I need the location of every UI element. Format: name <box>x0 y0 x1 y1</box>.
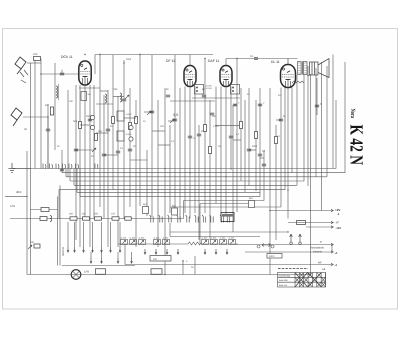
IF coil turn <box>196 90 198 92</box>
resistor R13 zigzag <box>292 81 304 83</box>
terminal arrow <box>331 243 333 246</box>
wire bend <box>69 169 71 182</box>
wire <box>34 61 36 169</box>
junction <box>151 111 152 112</box>
wire <box>170 231 288 233</box>
tube V1 DCH11 <box>79 61 91 85</box>
trimmer C40 <box>121 240 128 245</box>
wire <box>259 88 261 197</box>
tube V4 DL11 <box>281 65 296 88</box>
wire bus 5 <box>74 184 297 186</box>
capacitor C17 <box>279 119 283 121</box>
wire <box>307 75 310 77</box>
wire link <box>260 157 264 159</box>
svg-text:Taste MW: Taste MW <box>279 279 288 282</box>
capacitor C22 <box>150 111 154 113</box>
resistor R2 <box>79 122 82 129</box>
switch wafer contact W7 <box>202 215 206 223</box>
junction <box>204 58 205 59</box>
wire -A <box>245 251 332 253</box>
trimmer C42 <box>139 240 146 245</box>
junction <box>174 119 175 120</box>
svg-text:Schalterlage: Schalterlage <box>279 274 291 277</box>
svg-text:Nora: Nora <box>349 109 356 119</box>
svg-text:11,000: 11,000 <box>154 236 160 239</box>
resistor R8 <box>209 147 212 154</box>
svg-text:8μF: 8μF <box>249 197 254 200</box>
wire resistor bus <box>10 218 184 220</box>
switch contact T2 <box>155 249 157 254</box>
switch contact on bus <box>69 164 72 169</box>
wire <box>204 59 206 214</box>
wire <box>184 87 186 214</box>
wire <box>101 222 103 247</box>
junction <box>47 116 48 117</box>
wire <box>117 96 119 247</box>
IF coil turn <box>232 87 234 89</box>
wire trimmer row 2 <box>201 243 238 245</box>
switch contact S6 <box>110 247 112 252</box>
wire <box>83 222 85 247</box>
wire <box>67 90 69 177</box>
switch contact on bus <box>50 164 53 169</box>
wire <box>275 125 277 240</box>
junction <box>61 169 62 170</box>
svg-text:40/2: 40/2 <box>16 190 22 194</box>
switch contact S9 <box>101 258 103 263</box>
wire <box>244 100 246 192</box>
wire <box>331 245 333 253</box>
switch wafer contact W6 <box>195 215 199 223</box>
wire <box>157 100 159 247</box>
svg-text:10,000: 10,000 <box>126 133 132 136</box>
wire <box>92 222 94 247</box>
junction <box>182 260 183 261</box>
wire <box>263 150 265 201</box>
wire <box>296 75 298 185</box>
terminal arrow <box>331 226 333 229</box>
svg-text:DF 11: DF 11 <box>166 59 175 63</box>
capacitor C26 <box>34 244 40 248</box>
wire link <box>79 87 100 89</box>
wire bend <box>61 169 63 173</box>
trimmer arrow C48 <box>230 240 234 244</box>
wire <box>169 125 171 213</box>
wire bus 6 <box>59 189 285 191</box>
wire bus 2 <box>62 172 345 174</box>
trimmer arrow C44 <box>164 240 168 244</box>
switch contact on bus <box>95 164 98 169</box>
wire <box>103 95 105 219</box>
switch contact S10 <box>117 258 119 263</box>
capacitor C4 <box>88 119 92 121</box>
capacitor C12 <box>210 113 214 115</box>
wire bus 4 <box>70 180 304 182</box>
oscillator transformer lower <box>117 131 124 141</box>
capacitor C9 <box>74 149 78 151</box>
potentiometer P1 400 <box>150 256 171 262</box>
trimmer arrow <box>92 148 96 152</box>
wire <box>47 117 49 169</box>
variable capacitor <box>90 125 94 129</box>
trimmer arrow C45 <box>203 240 207 244</box>
wire <box>129 88 131 207</box>
wire <box>61 150 63 169</box>
wire <box>79 85 81 247</box>
power filter block <box>221 213 234 222</box>
switch contact S4 <box>92 247 94 252</box>
wire <box>316 78 318 115</box>
junction <box>316 105 317 106</box>
wire <box>194 87 196 214</box>
svg-text:1M: 1M <box>218 145 221 148</box>
svg-text:L/W: L/W <box>10 204 15 208</box>
wire bus 1 <box>12 168 336 170</box>
wire grid V1 <box>41 73 79 75</box>
tube socket table <box>278 273 326 288</box>
svg-text:10,000: 10,000 <box>126 113 132 116</box>
phono jack <box>257 244 274 248</box>
switch wafer contact W2 <box>159 215 163 223</box>
wire <box>119 222 121 247</box>
wire <box>151 55 153 217</box>
trimmer arrow C47 <box>221 240 225 244</box>
tube V3 DAF11 <box>220 66 232 87</box>
wire <box>215 87 217 204</box>
resistor R4 <box>112 117 115 124</box>
junction <box>269 244 270 245</box>
wire bus 9 <box>184 200 265 202</box>
capacitor C15 <box>258 154 262 156</box>
capacitor C13b <box>188 136 192 138</box>
junction <box>287 231 288 232</box>
wire bus 11 <box>170 206 281 208</box>
junction <box>287 189 288 190</box>
wire link <box>96 132 108 134</box>
wire +2V <box>270 210 333 212</box>
capacitor grid V2 <box>166 95 170 97</box>
wire switch lead <box>31 209 58 211</box>
choke L8 <box>50 216 52 222</box>
junction <box>84 54 85 55</box>
wire HF line <box>125 264 332 266</box>
dial lamp <box>71 270 81 280</box>
wire <box>255 100 257 191</box>
junction <box>269 210 270 211</box>
svg-text:+: + <box>320 240 322 244</box>
svg-text:300: 300 <box>88 93 91 96</box>
wire link <box>124 117 136 119</box>
wire <box>110 222 112 247</box>
svg-text:220: 220 <box>33 53 38 56</box>
IF transformer T1 <box>195 85 204 95</box>
wire AVC link <box>215 124 240 126</box>
svg-text:2000: 2000 <box>126 58 132 61</box>
wire IF link <box>192 97 240 99</box>
wire <box>248 88 250 186</box>
switch contact S7 <box>119 247 121 252</box>
svg-text:DAF 11: DAF 11 <box>208 59 219 63</box>
wire <box>75 85 77 240</box>
wire link <box>104 154 118 156</box>
wire <box>303 66 305 181</box>
wire <box>67 222 69 247</box>
svg-text:DCh 11: DCh 11 <box>61 55 73 59</box>
wire link <box>113 96 124 98</box>
antenna switch contacts <box>20 70 28 83</box>
switch wafer contact W9 <box>220 215 224 223</box>
ground symbol left <box>9 163 16 173</box>
resistor R7 <box>204 125 207 132</box>
junction <box>75 149 76 150</box>
wire link <box>158 144 170 146</box>
junction <box>164 168 165 169</box>
trimmer arrow C42 <box>140 240 144 244</box>
wire <box>93 85 95 219</box>
tube V2 DF11 <box>184 66 196 87</box>
capacitor C16 <box>262 164 266 166</box>
capacitor C25 block <box>40 217 47 221</box>
switch arrow <box>28 245 32 249</box>
plug link P2 <box>299 234 302 245</box>
resistor R15 <box>83 217 90 220</box>
switch contact S2 <box>74 247 76 252</box>
wire <box>61 70 63 73</box>
junction <box>123 62 124 63</box>
wire link <box>96 103 113 105</box>
wire link <box>130 159 147 161</box>
junction <box>26 196 27 197</box>
capacitor C10 <box>102 154 106 156</box>
wire <box>90 252 92 258</box>
resistor R3 <box>95 134 98 141</box>
switch block S30 <box>96 269 106 275</box>
wire link <box>80 124 90 126</box>
switch contact S3 <box>83 247 85 252</box>
wire <box>344 62 346 173</box>
wire <box>291 88 293 173</box>
wire link <box>144 111 152 113</box>
wire left rail <box>30 63 32 275</box>
wire heater + <box>236 244 332 246</box>
svg-text:10,000: 10,000 <box>206 87 213 90</box>
resistor R20 zigzag <box>188 242 201 245</box>
IF coil turn <box>232 90 234 92</box>
svg-text:Heizbatterie: Heizbatterie <box>310 247 324 250</box>
wire <box>146 150 148 216</box>
wire <box>74 222 76 247</box>
capacitor C13 <box>229 136 233 138</box>
junction <box>259 104 260 105</box>
junction <box>164 274 165 275</box>
svg-text:4000: 4000 <box>269 255 275 258</box>
svg-text:535: 535 <box>113 88 118 91</box>
resistor R6 <box>135 117 138 124</box>
wire ground bus main <box>27 274 311 276</box>
electrolytic capacitor C32 8uF <box>249 201 255 208</box>
trimmer arrow C46 <box>212 240 216 244</box>
junction <box>236 58 237 59</box>
wire <box>310 74 312 275</box>
trimmer arrow C43 <box>155 240 159 244</box>
switch S20 box <box>41 208 49 212</box>
svg-text:Taste LW: Taste LW <box>279 284 288 287</box>
wire bend <box>73 169 75 186</box>
svg-text:4,0: 4,0 <box>173 113 178 117</box>
wire <box>280 88 282 208</box>
capacitor C8 <box>128 149 132 151</box>
resistor R14 <box>70 217 77 220</box>
switch contact S11 <box>131 258 133 263</box>
trimmer C46 <box>211 240 218 245</box>
wire -13 <box>306 226 333 228</box>
switch contact T1 <box>144 249 146 254</box>
trimmer C43 <box>154 240 161 245</box>
trimmer C48 <box>229 240 236 245</box>
wire bend <box>65 169 67 177</box>
terminal arrow <box>331 251 333 254</box>
wire bus 8 <box>80 196 260 198</box>
terminal arrow <box>331 221 333 224</box>
wire <box>179 88 181 220</box>
wire <box>189 87 191 219</box>
svg-text:10,000: 10,000 <box>206 85 213 88</box>
switch wafer contact W1 <box>150 215 154 223</box>
svg-text:11,000: 11,000 <box>130 236 136 239</box>
svg-text:-A: -A <box>335 251 338 255</box>
switch contact S8 <box>90 258 92 263</box>
wire <box>287 88 289 219</box>
wire left rail 2 <box>26 151 28 275</box>
junction <box>99 54 100 55</box>
capacitor C23 <box>173 119 177 121</box>
switch arrow <box>170 119 174 123</box>
wire <box>94 55 96 75</box>
wire top supply <box>95 54 213 56</box>
trimmer C41 <box>130 240 137 245</box>
wire bus 10 <box>200 203 250 205</box>
svg-text:4μF: 4μF <box>172 205 177 208</box>
resistor R18 <box>125 217 132 220</box>
antenna series capacitor C1 <box>34 57 41 61</box>
wire <box>89 85 91 247</box>
wire <box>169 223 171 237</box>
resistor R11 <box>275 137 278 144</box>
IF transformer T2 <box>231 85 240 95</box>
variable capacitor <box>129 137 133 141</box>
switch wafer contact W8 <box>210 215 214 223</box>
coil block L9 <box>81 92 87 101</box>
trimmer arrow C41 <box>131 240 135 244</box>
switch contact T5 <box>204 249 206 254</box>
junction <box>189 172 190 173</box>
switch contact on bus <box>56 164 59 169</box>
wire screen V3 <box>225 59 227 66</box>
capacitor C24 <box>254 58 258 60</box>
table top ticks <box>278 268 308 270</box>
switch contact T7 <box>226 249 228 254</box>
antenna A1 <box>15 57 26 74</box>
wire <box>174 55 176 208</box>
wire <box>315 68 317 177</box>
svg-text:400: 400 <box>69 213 74 216</box>
capacitor C21 <box>60 169 64 171</box>
variable capacitor <box>129 125 133 129</box>
switch contact T6 <box>215 249 217 254</box>
switch block S31 <box>151 269 162 275</box>
switch contact T3 <box>166 249 168 254</box>
wire <box>123 60 125 219</box>
wire <box>131 252 133 258</box>
svg-text:11,000: 11,000 <box>121 236 127 239</box>
svg-text:11,000: 11,000 <box>163 236 169 239</box>
wire <box>124 244 126 265</box>
wire <box>182 260 184 275</box>
resistor R16 <box>95 217 102 220</box>
resistor R10 <box>255 132 258 139</box>
terminal arrow <box>331 209 333 212</box>
resistor R9 <box>240 122 243 129</box>
wire screen V2 <box>189 55 191 66</box>
wire <box>5 195 27 197</box>
svg-text:50k: 50k <box>73 120 78 123</box>
trimmer C45 <box>202 240 209 245</box>
capacitor C6 <box>116 151 120 153</box>
wire bend <box>76 169 78 193</box>
junction <box>89 119 90 120</box>
junction <box>234 104 235 105</box>
wire bend <box>58 190 60 219</box>
switch wafer contact W4 <box>177 215 181 223</box>
wire <box>225 87 227 217</box>
capacitor C11 <box>197 134 201 136</box>
wire link <box>100 90 108 92</box>
oscillator coil L3 <box>120 93 122 102</box>
switch wafer contact W10 <box>226 215 230 223</box>
output transformer T3 <box>298 62 308 75</box>
wire link <box>152 130 165 132</box>
wire antenna to coil <box>27 62 41 64</box>
variable capacitor <box>90 115 94 119</box>
svg-text:5000: 5000 <box>252 145 258 148</box>
wire link <box>233 139 241 141</box>
wire <box>117 252 119 258</box>
wire <box>230 87 232 171</box>
wire link <box>168 120 175 122</box>
switch contact on bus <box>63 164 66 169</box>
svg-text:DL 11: DL 11 <box>271 60 280 64</box>
wire <box>307 66 309 186</box>
wire <box>198 125 200 240</box>
wire antenna 2 lead <box>23 116 48 118</box>
wire <box>199 204 201 245</box>
wire <box>47 104 49 169</box>
wire bus 7 <box>77 191 260 193</box>
wire <box>139 55 141 207</box>
wire <box>107 90 109 247</box>
svg-text:150: 150 <box>82 213 87 216</box>
antenna coil L1 <box>56 86 58 98</box>
wire <box>112 55 114 190</box>
junction <box>40 73 41 74</box>
wire <box>57 196 59 265</box>
svg-text:+2V: +2V <box>335 208 340 212</box>
switch contact on bus <box>43 164 46 169</box>
wire <box>84 85 86 219</box>
oscillator coil L2 <box>105 94 107 103</box>
wire ground link <box>12 168 31 170</box>
wire <box>326 66 328 177</box>
